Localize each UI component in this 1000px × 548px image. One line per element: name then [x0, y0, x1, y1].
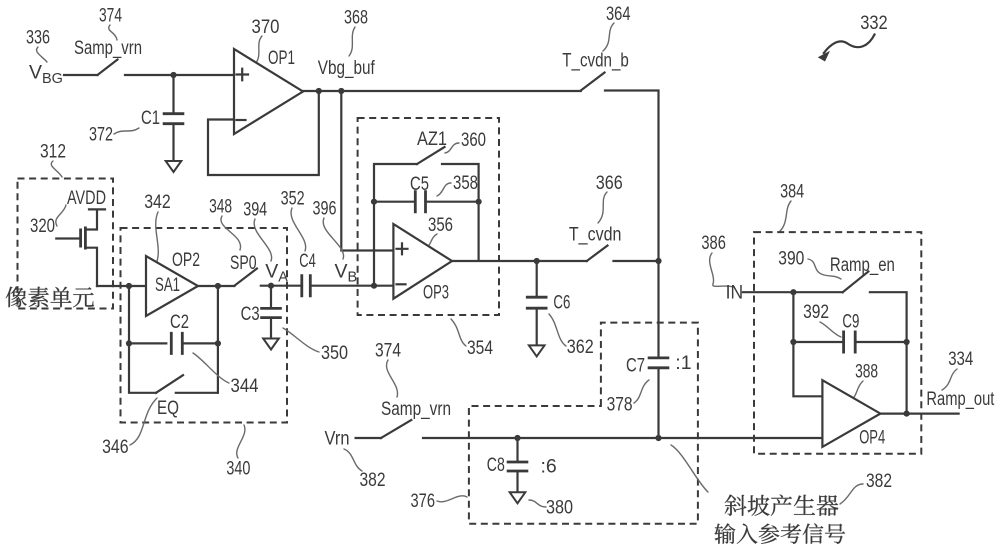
wire C1 bottom lead: [172, 125, 174, 161]
svg-text:T_cvdn_b: T_cvdn_b: [562, 51, 629, 72]
svg-text:370: 370: [252, 16, 280, 38]
svg-text:334: 334: [948, 348, 973, 370]
wire C5 right lead: [426, 201, 479, 203]
junction SA1 output node: [215, 283, 221, 289]
svg-text::1: :1: [675, 352, 691, 374]
svg-text:C2: C2: [170, 311, 189, 333]
wire Vrn rail to OP4: [423, 437, 822, 439]
svg-text:396: 396: [313, 198, 337, 220]
svg-text:IN: IN: [726, 282, 744, 304]
svg-text:C9: C9: [842, 311, 859, 333]
leader 348 to SP0: [221, 216, 241, 250]
transistor 320 (pixel source follower): [56, 209, 105, 286]
svg-text:332: 332: [860, 12, 888, 34]
wire pixel output to SA1 input: [97, 285, 146, 287]
amplifier block box 340: [121, 228, 288, 423]
svg-text:OP1: OP1: [268, 47, 295, 69]
svg-text:AVDD: AVDD: [67, 188, 106, 209]
wire C5 left lead: [374, 201, 415, 203]
svg-text:348: 348: [209, 196, 232, 218]
junction C2 left: [126, 340, 132, 346]
wire C2 to SA1 output vertical: [182, 286, 218, 393]
op-amp OP1 plus pin mark: [237, 69, 249, 81]
wire AZ1 right segment: [442, 164, 479, 261]
leader 358 to C5: [437, 183, 451, 196]
svg-text:C3: C3: [241, 303, 260, 325]
capacitor C3: [260, 308, 282, 317]
switch Samp_vrn blade bottom: [381, 420, 411, 438]
ground below C8: [510, 492, 526, 503]
svg-text:358: 358: [453, 172, 478, 194]
svg-text:344: 344: [231, 375, 259, 397]
leader 320 to transistor: [56, 205, 66, 226]
svg-text:346: 346: [102, 436, 129, 458]
junction SA1 input node: [126, 283, 132, 289]
svg-text:356: 356: [428, 214, 453, 236]
wire Ramp_en to right vertical: [870, 292, 907, 413]
wire OP3 output to switch T_cvdn: [452, 260, 587, 262]
leader 388 to OP4: [850, 381, 863, 401]
junction C2 right: [215, 340, 221, 346]
wire C7 to Vrn rail: [657, 368, 659, 438]
svg-text:312: 312: [40, 141, 66, 163]
arrow 332 pointer: [824, 35, 875, 54]
leader chinese to Vrn rail: [671, 445, 708, 492]
wire Vbg_buf to OP3 plus input: [341, 91, 393, 251]
leader 366 to T_cvdn: [598, 192, 607, 223]
svg-text:350: 350: [321, 342, 348, 364]
node VB: [371, 283, 377, 289]
leader 370 to OP1: [255, 36, 262, 64]
wire VBG to switch 374: [64, 74, 98, 76]
op-amp OP3: [393, 224, 452, 299]
leader 350 to C3: [283, 328, 319, 352]
svg-text:342: 342: [144, 191, 171, 213]
svg-text:T_cvdn: T_cvdn: [569, 225, 622, 246]
capacitor C9: [844, 331, 856, 354]
svg-text:368: 368: [344, 7, 368, 29]
op-amp OP3 plus pin mark: [397, 243, 408, 254]
capacitor C8: [507, 462, 529, 471]
auto-zero block box 354: [358, 118, 499, 315]
leader 386 to IN: [710, 253, 733, 287]
leader 382 to chinese text: [840, 484, 863, 504]
switch Samp_vrn blade top: [98, 60, 118, 76]
wire IN node down to OP4 input: [793, 292, 822, 396]
svg-text:386: 386: [701, 232, 726, 254]
op-amp OP1 minus pin mark: [237, 119, 246, 121]
op-amp OP4: [822, 380, 880, 447]
wire SP0 to VA node: [261, 285, 302, 287]
svg-text:OP4: OP4: [859, 427, 885, 449]
leader 344 to C2: [193, 353, 229, 383]
junction C7 bottom node: [655, 435, 661, 441]
wire C6 top lead: [536, 261, 538, 297]
leader 378 to C7: [634, 380, 649, 403]
leader 360 to AZ1 switch: [445, 143, 459, 153]
junction C5 right: [476, 199, 482, 205]
svg-text:OP2: OP2: [172, 249, 200, 271]
junction IN node: [790, 289, 796, 295]
wire C8 top lead: [516, 438, 518, 462]
leader 346 to EQ: [130, 398, 157, 445]
svg-text:384: 384: [780, 181, 804, 203]
svg-text:372: 372: [89, 124, 113, 146]
wire C8 bottom lead: [516, 472, 518, 493]
wire C1 top lead: [172, 75, 174, 113]
pixel unit box 312: [18, 179, 114, 309]
svg-text:374: 374: [375, 340, 401, 362]
junction OP1 feedback tap: [316, 88, 322, 94]
op-amp OP3 minus pin mark: [397, 283, 406, 285]
leader 368 to Vbg_buf: [349, 27, 355, 56]
junction C6 tap: [534, 258, 540, 264]
svg-text:Ramp_en: Ramp_en: [830, 255, 895, 276]
svg-text:394: 394: [243, 199, 267, 221]
svg-text:C7: C7: [626, 355, 645, 377]
svg-text:C5: C5: [410, 173, 429, 195]
leader 390 to Ramp_en switch: [808, 259, 841, 279]
leader 362 to C6 ground: [549, 314, 566, 346]
svg-text:C1: C1: [141, 107, 160, 129]
text 像素单元 (pixel unit): [6, 287, 94, 308]
junction Ramp_out node: [904, 411, 910, 417]
text 斜坡产生器 (ramp generator): [725, 494, 839, 515]
svg-text:352: 352: [281, 188, 305, 210]
svg-text::6: :6: [541, 456, 557, 478]
wire OP1 feedback loop: [208, 91, 319, 175]
svg-text:378: 378: [607, 394, 633, 416]
leader 374 bottom to Samp_vrn: [387, 360, 398, 397]
junction C8 tap: [514, 435, 520, 441]
leader 372 to C1: [114, 128, 139, 134]
wire switch to OP1 plus input: [125, 74, 234, 76]
switch T_cvdn blade: [587, 246, 608, 262]
leader 336 to VBG: [37, 47, 47, 62]
switch EQ blade: [156, 375, 183, 393]
wire EQ lower left vertical: [129, 343, 156, 392]
capacitor C5: [415, 190, 425, 213]
wire Vrn to switch: [356, 437, 381, 439]
wire EQ right segment: [176, 392, 218, 394]
svg-text:Vbg_buf: Vbg_buf: [318, 58, 376, 79]
junction C9 right: [904, 339, 910, 345]
switch T_cvdn_b blade: [581, 73, 605, 91]
ground below C1: [166, 161, 182, 172]
capacitor C7: [648, 358, 670, 368]
wire C4 to VB node and OP3 minus: [310, 285, 393, 287]
leader 382 to Vrn: [344, 449, 362, 471]
svg-text:354: 354: [467, 337, 493, 359]
leader 342 to OP2: [156, 212, 159, 264]
svg-text:C8: C8: [487, 454, 505, 476]
leader 354 to box 354: [451, 319, 466, 346]
capacitor C4: [302, 274, 311, 297]
svg-text:380: 380: [546, 497, 573, 519]
leader 396 to VB: [323, 218, 343, 259]
svg-text:382: 382: [360, 469, 386, 491]
ramp generator box 384: [754, 232, 921, 454]
leader 384 to ramp box: [780, 201, 791, 231]
junction C5 left: [371, 199, 377, 205]
capacitor C1: [163, 114, 185, 124]
svg-text:388: 388: [855, 361, 878, 383]
leader 380 to C8 ground: [529, 500, 546, 507]
svg-text:364: 364: [606, 3, 631, 25]
svg-text:390: 390: [778, 248, 804, 270]
wire VB vertical to AZ1: [374, 164, 417, 286]
svg-text:EQ: EQ: [157, 397, 179, 419]
svg-text:360: 360: [461, 129, 486, 151]
junction Vbg_buf tap: [338, 88, 344, 94]
ground below C6: [529, 345, 545, 356]
svg-text:362: 362: [567, 336, 594, 358]
junction C9 left: [790, 339, 796, 345]
capacitor C6: [526, 297, 548, 308]
svg-text:336: 336: [26, 27, 50, 49]
svg-text:Ramp_out: Ramp_out: [926, 389, 995, 410]
svg-text:Samp_vrn: Samp_vrn: [74, 38, 142, 59]
text 输入参考信号 (input reference signal): [715, 523, 846, 543]
svg-text:SA1: SA1: [155, 275, 180, 296]
node VA: [268, 283, 274, 289]
svg-text:320: 320: [30, 215, 55, 237]
leader 312 to pixel box: [51, 161, 62, 177]
wire T_cvdn_b to right bus corner: [605, 91, 659, 358]
wire T_cvdn to right bus: [614, 260, 659, 262]
junction right bus at T_cvdn: [655, 258, 661, 264]
leader 352 to C4: [291, 208, 306, 251]
svg-text:340: 340: [226, 458, 250, 480]
leader 334 to Ramp_out: [942, 369, 957, 390]
svg-text:374: 374: [99, 5, 122, 27]
switch AZ1 blade: [417, 147, 445, 164]
wire SA1 input to C2: [129, 286, 166, 343]
svg-text:Samp_vrn: Samp_vrn: [381, 399, 451, 420]
wire C9 left lead: [793, 341, 843, 343]
op-amp OP2 / SA1: [146, 256, 198, 316]
svg-text:C6: C6: [553, 292, 570, 314]
wire SA1 output to switch SP0: [198, 285, 234, 287]
leader 340 to box: [237, 425, 245, 458]
svg-text:AZ1: AZ1: [417, 129, 447, 150]
wire VA to C3: [270, 286, 272, 308]
svg-text:C4: C4: [299, 250, 316, 272]
wire C9 right lead: [855, 341, 906, 343]
switch Ramp_en blade: [843, 272, 869, 293]
svg-text:OP3: OP3: [423, 282, 449, 304]
ramp reference gen box (C7/C8): [469, 323, 698, 524]
switch SP0 blade: [234, 269, 257, 286]
capacitor C2: [171, 332, 182, 355]
wire C3 to ground: [270, 318, 272, 338]
wire OP4 output Ramp_out: [880, 413, 958, 415]
leader 356 to OP3: [425, 234, 437, 249]
ground below C3: [263, 339, 279, 350]
leader 374 to Samp_vrn switch: [109, 25, 117, 40]
wire C6 bottom lead: [536, 309, 538, 345]
junction node C1 tap: [170, 72, 176, 78]
svg-text:Vrn: Vrn: [325, 429, 350, 450]
leader 392 to C9: [820, 322, 841, 337]
wire IN to switch Ramp_en: [743, 291, 843, 293]
svg-text:382: 382: [866, 470, 892, 492]
leader 394 to VA: [254, 219, 271, 261]
svg-text:392: 392: [803, 301, 829, 323]
leader 364 to T_cvdn_b: [603, 23, 614, 51]
wire OP1 output to switch 364: [303, 90, 581, 92]
leader 376 to box: [437, 496, 467, 502]
op-amp OP1: [234, 49, 303, 134]
svg-text:376: 376: [411, 490, 436, 512]
svg-text:366: 366: [596, 172, 623, 194]
